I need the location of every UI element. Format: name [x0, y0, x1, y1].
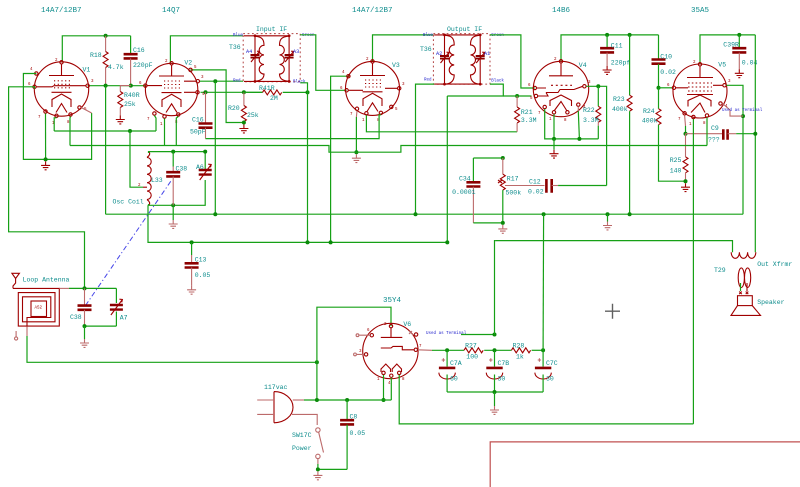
wire V5 heater pin1 long drop [692, 119, 694, 424]
coil T36b primary [446, 35, 455, 84]
ground switch [313, 471, 322, 479]
trimmer A1 [476, 35, 491, 84]
svg-text:0.02: 0.02 [528, 189, 544, 196]
junction pin3 row [213, 79, 217, 83]
svg-text:3.3M: 3.3M [583, 117, 599, 124]
capacitor C13 [185, 242, 211, 285]
ground V4 [553, 139, 555, 150]
junction C16 bottom [129, 84, 133, 88]
wire V4 cathode bus [545, 109, 599, 139]
svg-text:2M: 2M [270, 95, 278, 102]
coil T36 secondary [280, 36, 289, 81]
junction R25 bottom [684, 179, 688, 183]
wire V2 pin3 to IF Red [200, 80, 243, 82]
blue gang line [86, 180, 173, 306]
svg-text:35A5: 35A5 [691, 7, 710, 15]
svg-text:R27: R27 [465, 343, 477, 350]
svg-text:Red: Red [233, 79, 241, 84]
trimmer A3 [285, 36, 300, 82]
resistor R20 [228, 92, 259, 122]
osc box wiring [149, 152, 206, 170]
switch SW17C [292, 428, 324, 464]
svg-text:60: 60 [450, 376, 458, 383]
svg-text:R40R: R40R [124, 92, 140, 99]
capacitor C16 50pF [190, 92, 213, 138]
svg-text:Used as Terminal: Used as Terminal [722, 108, 763, 113]
svg-text:14A7/12B7: 14A7/12B7 [352, 7, 393, 15]
junction R21 top [515, 94, 519, 98]
V6 heater pin drops [383, 375, 385, 400]
wire loop top to tuner [59, 287, 69, 289]
ground C39R [735, 69, 744, 77]
V2 pin drops [154, 116, 156, 132]
svg-text:400k: 400k [612, 106, 628, 113]
resistor R41R [244, 85, 308, 102]
svg-text:4.7k: 4.7k [108, 64, 124, 71]
svg-text:14A7/12B7: 14A7/12B7 [41, 7, 82, 15]
svg-text:Black: Black [293, 80, 306, 85]
svg-text:117vac: 117vac [264, 384, 288, 391]
speaker [731, 296, 785, 316]
svg-text:14Q7: 14Q7 [162, 7, 180, 15]
wire V3 pin8 drop to row [206, 115, 381, 139]
svg-text:Red: Red [424, 78, 432, 83]
wire loop bottom return [26, 327, 28, 337]
capacitor C7A [439, 350, 462, 392]
ground row left [23, 74, 91, 160]
svg-text:???: ??? [708, 137, 720, 144]
wire V5 heater pin8 up from chain [706, 118, 708, 146]
wire tuner bottom [85, 325, 117, 327]
svg-text:Out Xfrmr: Out Xfrmr [757, 261, 792, 268]
svg-text:V4: V4 [579, 62, 587, 69]
junction C16b top [204, 90, 208, 94]
capacitor C9 [686, 125, 756, 144]
wire V2 pin5 loop to R20 bottom [191, 70, 244, 123]
svg-text:C13: C13 [195, 257, 207, 264]
svg-text:L33: L33 [151, 177, 163, 184]
svg-text:3.3M: 3.3M [521, 117, 537, 124]
wire V1 plate to top rail [62, 36, 130, 63]
svg-text:25k: 25k [124, 101, 136, 108]
svg-text:Osc Coil: Osc Coil [113, 199, 144, 206]
svg-text:C7C: C7C [546, 360, 558, 367]
coil T36 primary [255, 36, 264, 81]
speaker wires [740, 283, 742, 291]
ground R25 [681, 183, 690, 191]
svg-text:SW17C: SW17C [292, 432, 312, 439]
svg-text:0.05: 0.05 [195, 272, 211, 279]
svg-text:140: 140 [670, 168, 682, 175]
svg-text:Power: Power [292, 445, 312, 452]
pin4 terminal stub [723, 104, 744, 117]
ground stub on bus [607, 214, 609, 221]
svg-text:220pF: 220pF [133, 62, 153, 69]
svg-text:220pf: 220pf [611, 60, 631, 67]
resistor R21 [515, 96, 537, 132]
junction C39R top [737, 33, 741, 37]
coil L33 [113, 152, 163, 206]
ground R40R [116, 116, 125, 124]
svg-text:Output IF: Output IF [447, 26, 482, 33]
svg-text:C38: C38 [176, 166, 188, 173]
tube V3 [340, 58, 405, 123]
svg-text:Blue: Blue [233, 33, 244, 38]
wire V6 plate loop to power [317, 307, 391, 400]
svg-text:A7: A7 [120, 315, 128, 322]
wire AVC drop from R18 node [105, 86, 107, 215]
wire IFb green to V4 grid [490, 35, 535, 88]
junction R20 bottom [242, 121, 246, 125]
junction C7C top [541, 348, 545, 352]
junction terminal [741, 114, 745, 118]
tube V1 [28, 59, 94, 126]
svg-text:500k: 500k [506, 190, 522, 197]
antenna open terminal [15, 331, 17, 337]
wire V6 cathode to C7A [418, 349, 432, 352]
svg-text:C34: C34 [459, 176, 471, 183]
junction R23 top [628, 33, 632, 37]
resistor R24 [642, 88, 686, 181]
svg-text:100: 100 [466, 354, 478, 361]
capacitor C12 [505, 179, 607, 196]
svg-text:R28: R28 [513, 343, 525, 350]
svg-text:C9: C9 [711, 125, 719, 132]
svg-text:V1: V1 [83, 67, 91, 74]
wire heater return long loop [399, 375, 693, 424]
svg-text:400k: 400k [642, 118, 658, 125]
ground osc [172, 205, 174, 220]
svg-text:T36: T36 [229, 44, 241, 51]
B+ wire to output transformer [496, 241, 733, 253]
tube V5 [667, 61, 731, 127]
svg-text:C8: C8 [350, 414, 358, 421]
resistor R23 [612, 35, 632, 214]
wire V3 plate to output IF Blue [373, 35, 434, 62]
svg-text:C12: C12 [529, 179, 541, 186]
junction R22 top [596, 84, 600, 88]
capacitor C38 osc [166, 152, 187, 206]
svg-text:R24: R24 [643, 108, 655, 115]
svg-text:Speaker: Speaker [757, 299, 784, 306]
coil T36b secondary [471, 35, 480, 84]
svg-text:0.02: 0.02 [660, 69, 676, 76]
svg-text:Blue: Blue [423, 33, 434, 38]
T36b buses [434, 35, 480, 84]
junction R20 top [242, 90, 246, 94]
svg-text:30: 30 [498, 376, 506, 383]
svg-text:35Y4: 35Y4 [383, 297, 402, 305]
capacitor C16 220pF [124, 36, 153, 85]
svg-text:R41R: R41R [259, 85, 275, 92]
svg-text:R18: R18 [90, 52, 102, 59]
svg-text:C16: C16 [133, 47, 145, 54]
svg-text:A4: A4 [246, 49, 252, 55]
wire V4 pin1 drop [553, 114, 555, 139]
svg-text:A52: A52 [35, 307, 43, 311]
AVC bus y=214 [106, 213, 743, 215]
heater chain row [70, 146, 707, 153]
bus y=242.4 [148, 205, 447, 242]
ground C11 [603, 66, 612, 74]
trimmer A6 [196, 164, 212, 180]
svg-text:C16: C16 [192, 117, 204, 124]
wire B+ riser from C7B [495, 241, 496, 335]
resistor R25 [670, 134, 688, 182]
svg-text:R25: R25 [670, 157, 682, 164]
loop antenna A52 [13, 288, 59, 326]
svg-text:A1: A1 [484, 51, 490, 57]
resistor R40R [118, 86, 140, 116]
wire V3 pin4 AVC drop [331, 76, 351, 242]
svg-text:C7B: C7B [498, 360, 510, 367]
trimmer A4 [246, 36, 260, 82]
wire IF green terminal to V3 pin6 [300, 35, 346, 91]
svg-text:C7A: C7A [450, 360, 462, 367]
svg-text:R20: R20 [228, 105, 240, 112]
ground V3 [352, 154, 361, 162]
transformer T29 primary [714, 252, 792, 274]
svg-text:Used as Terminal: Used as Terminal [426, 331, 467, 336]
T36 top bus [244, 36, 289, 82]
V1 grid loop to antenna [9, 87, 85, 289]
wire terminal row [414, 333, 417, 336]
capacitor C38 antenna [70, 288, 92, 326]
capacitor C7B [486, 350, 509, 392]
svg-text:1k: 1k [516, 354, 524, 361]
svg-text:R22: R22 [583, 107, 595, 114]
junction C9 left [684, 132, 688, 136]
ground C13 [187, 286, 196, 294]
svg-text:Loop Antenna: Loop Antenna [23, 277, 70, 284]
wire V5 cathode pin down [684, 115, 687, 126]
capacitor C10 [652, 35, 677, 88]
ground antenna tuner [80, 339, 89, 347]
svg-text:Black: Black [491, 79, 504, 84]
wire C7C riser [542, 214, 545, 350]
frame border red [490, 442, 800, 487]
wire V5 plate to rail [700, 35, 755, 64]
big ground left [41, 161, 50, 169]
transformer T29 secondary [738, 268, 744, 288]
svg-text:V3: V3 [392, 62, 400, 69]
svg-text:V5: V5 [718, 62, 726, 69]
V1 pin drops [45, 114, 47, 160]
capacitor C8 [340, 400, 365, 469]
tube V2 [139, 60, 205, 128]
ground R20 [239, 125, 248, 133]
osc tap drop [130, 131, 143, 187]
wire V2 plate to input IF Blue [170, 36, 243, 63]
svg-text:R17: R17 [507, 176, 519, 183]
wire V2 pin4 row [201, 91, 263, 93]
wire V3 cathode pin down to heater row [355, 111, 358, 117]
wire IFb red row to left [416, 84, 435, 214]
svg-text:C11: C11 [611, 43, 623, 50]
svg-text:C39R: C39R [723, 42, 739, 49]
svg-text:0.05: 0.05 [350, 430, 366, 437]
resistor R18 [90, 36, 124, 86]
wire V3 pin1 down to cathode bus [366, 115, 517, 132]
capacitor C34 [452, 156, 505, 223]
svg-text:50pF: 50pF [190, 129, 206, 136]
tube V6 [354, 321, 422, 386]
wire V4 pin4 drop [577, 107, 579, 111]
svg-text:30: 30 [546, 376, 554, 383]
svg-text:R23: R23 [613, 96, 625, 103]
junction R18 top [104, 34, 108, 38]
svg-text:V6: V6 [403, 321, 411, 328]
resistor R27 [464, 343, 511, 361]
capacitor C39R [723, 35, 757, 69]
tube V4 [528, 58, 591, 123]
wire B+ right rail down [754, 35, 756, 252]
wire C10 to V5 pin6 [657, 86, 661, 90]
cursor cross [605, 304, 620, 319]
wire R21 grid row [446, 96, 448, 242]
power row [304, 399, 391, 401]
wire V4 plate to rail [561, 35, 659, 61]
svg-text:25k: 25k [247, 112, 259, 119]
wire V4 pin3 row to C12 drop [586, 86, 606, 185]
junction C9 right on B+ rail [753, 132, 757, 136]
svg-text:A6: A6 [196, 164, 204, 171]
wire grid row V1.3 to V2.6 [88, 85, 146, 87]
junction C11 top [605, 33, 609, 37]
capacitor C11 [600, 35, 630, 67]
cathode row y=131 [54, 130, 156, 132]
wire V5 pin3 down [727, 85, 744, 214]
svg-text:C38: C38 [70, 314, 82, 321]
svg-text:R21: R21 [521, 109, 533, 116]
resistor R22 [583, 86, 601, 139]
svg-text:14B6: 14B6 [552, 7, 571, 15]
wire IF black drop [300, 83, 307, 243]
svg-text:C10: C10 [660, 54, 672, 61]
svg-text:T29: T29 [714, 267, 726, 274]
svg-text:T36: T36 [420, 46, 432, 53]
AC plug [257, 392, 317, 425]
junction heater row V3 [354, 150, 358, 154]
resistor R28 [511, 343, 543, 361]
wire IFb black drop [447, 84, 503, 96]
antenna symbol [12, 273, 70, 288]
svg-text:Input IF: Input IF [256, 26, 287, 33]
trimmer A7 [110, 288, 128, 326]
trimmer A2 [436, 35, 449, 84]
capacitor C7C [535, 350, 558, 392]
svg-text:A3: A3 [293, 49, 299, 55]
wire drop to AVC bus [214, 81, 216, 214]
potentiometer R17 [498, 158, 521, 223]
junction C7B top [493, 348, 497, 352]
svg-text:A2: A2 [436, 51, 442, 57]
C7 ground bus [447, 391, 543, 393]
svg-text:V2: V2 [184, 60, 192, 67]
svg-text:0.0001: 0.0001 [452, 189, 476, 196]
junction R18 bottom [104, 84, 108, 88]
junction R41R right [306, 90, 310, 94]
